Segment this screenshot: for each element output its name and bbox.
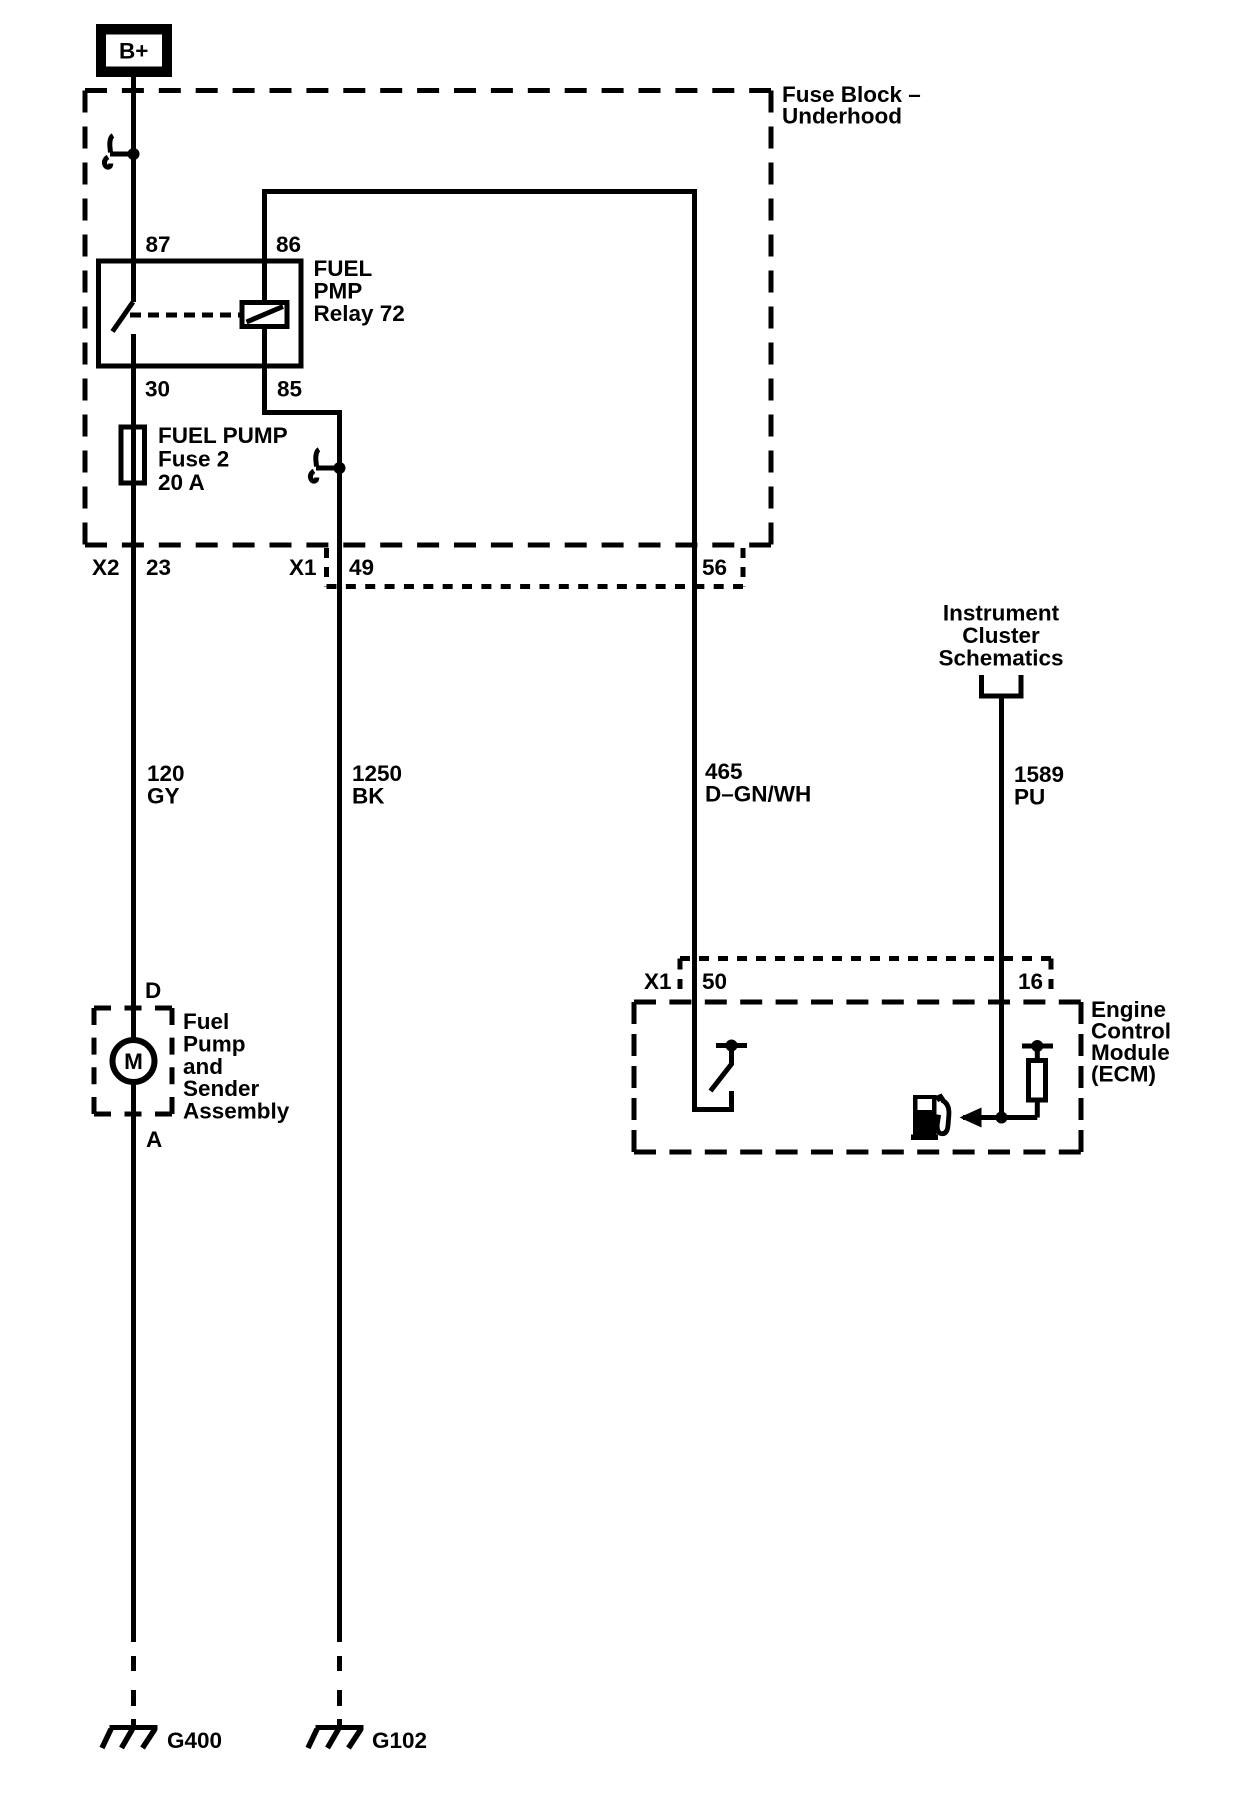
relay 72 outline: [99, 261, 302, 366]
svg-text:Underhood: Underhood: [782, 104, 902, 129]
node: Instrument Cluster Schematics: [938, 601, 1063, 671]
battery feed B+ box: [96, 24, 172, 77]
fuel pump icon (gas pump glyph): [911, 1094, 949, 1141]
label: Fuse Block - Underhood: [782, 82, 921, 129]
svg-text:and: and: [183, 1054, 223, 1079]
wire label 465 D-GN/WH: [705, 759, 811, 807]
fuel pump and sender assembly dashed border: [94, 1006, 172, 1011]
svg-text:PU: PU: [1014, 785, 1045, 810]
fuse 2 outline: [121, 427, 145, 483]
motor M circle (fuel pump): [113, 1040, 155, 1082]
svg-text:D: D: [145, 978, 161, 1003]
fuse F: FUEL PUMP Fuse 2 20 A label: [158, 423, 288, 495]
wire relay pin 85 jog to pin 49: [265, 364, 340, 413]
wire relay pin 86 vertical through coil: [262, 189, 267, 366]
svg-text:X2: X2: [92, 555, 120, 580]
svg-text:Pump: Pump: [183, 1031, 246, 1056]
ECM driver switch bar: [716, 1043, 747, 1048]
relay coil box: [242, 303, 287, 327]
connector X1 dotted outline (fuse block, pins 49/56): [324, 548, 329, 587]
svg-text:Cluster: Cluster: [962, 623, 1040, 648]
ECM U1: Engine Control Module label: [1091, 997, 1171, 1087]
svg-text:GY: GY: [147, 784, 180, 809]
svg-text:120: 120: [147, 761, 185, 786]
svg-text:PMP: PMP: [314, 279, 363, 304]
svg-text:1589: 1589: [1014, 762, 1064, 787]
junction node on gauge wire: [996, 1112, 1008, 1124]
wire label 120 GY: [147, 761, 185, 809]
fuse block underhood dashed border: [85, 88, 771, 93]
wire G102 dashed lead: [337, 1656, 342, 1671]
clip symbol on B+ feed: [110, 152, 134, 157]
svg-text:23: 23: [146, 555, 171, 580]
svg-text:Schematics: Schematics: [938, 646, 1063, 671]
svg-text:56: 56: [702, 555, 727, 580]
svg-text:B+: B+: [119, 39, 148, 64]
wire fuel gauge signal horizontal inside ECM: [963, 1115, 1037, 1120]
ECM pull-up resistor bar: [1022, 1044, 1053, 1049]
connector X1 dotted outline (ECM, pins 50/16): [678, 959, 683, 990]
ECM driver switch arm: [711, 1048, 732, 1091]
svg-text:(ECM): (ECM): [1091, 1062, 1156, 1087]
relay coil dashed link: [130, 313, 242, 318]
ground symbol G400: [110, 1725, 158, 1730]
svg-text:49: 49: [349, 555, 374, 580]
wire label 1589 PU: [1014, 762, 1064, 810]
svg-text:30: 30: [145, 377, 170, 402]
wire 1589 PU from instrument cluster down to junction: [999, 696, 1004, 1118]
wire label 1250 BK: [352, 761, 402, 809]
svg-text:FUEL: FUEL: [314, 256, 373, 281]
svg-text:BK: BK: [352, 784, 385, 809]
engine control module dashed border: [634, 1000, 1081, 1005]
svg-text:86: 86: [276, 232, 301, 257]
svg-text:Sender: Sender: [183, 1076, 260, 1101]
svg-text:FUEL PUMP: FUEL PUMP: [158, 423, 288, 448]
fuel pump and sender assembly label: [183, 1009, 290, 1124]
svg-text:1250: 1250: [352, 761, 402, 786]
arrowhead pointing at fuel gauge icon: [960, 1108, 982, 1128]
wire G400 dashed lead: [131, 1656, 136, 1671]
svg-text:G400: G400: [167, 1728, 222, 1753]
wire relay pin 86 horizontal top run: [265, 189, 698, 194]
svg-text:X1: X1: [644, 969, 672, 994]
svg-text:85: 85: [277, 377, 302, 402]
ECM pull-up resistor: [1035, 1046, 1040, 1060]
svg-text:Fuel: Fuel: [183, 1009, 229, 1034]
svg-text:Instrument: Instrument: [943, 601, 1060, 626]
svg-text:D–GN/WH: D–GN/WH: [705, 782, 811, 807]
svg-text:M: M: [124, 1049, 143, 1074]
svg-text:X1: X1: [289, 555, 317, 580]
svg-text:Fuse 2: Fuse 2: [158, 447, 229, 472]
wire B+ feed down from B+ box to relay pin 87: [131, 77, 136, 302]
svg-text:Assembly: Assembly: [183, 1099, 290, 1124]
relay switch arm: [113, 302, 134, 332]
instrument cluster connector bracket: [982, 675, 1022, 696]
svg-text:A: A: [146, 1127, 162, 1152]
wire relay pin 30 down through fuse, pin 23/X2, to fuel pump and on to G400: [131, 334, 136, 1642]
wire 465 D-GN/WH pin 56 down to ECM pin 50 and to switch: [695, 189, 732, 1110]
relay K: FUEL PMP Relay 72 label: [314, 256, 405, 326]
ground symbol G102: [316, 1725, 364, 1730]
clip symbol on pin 85 wire: [316, 466, 340, 471]
svg-text:50: 50: [702, 969, 727, 994]
svg-text:20 A: 20 A: [158, 470, 205, 495]
svg-text:465: 465: [705, 759, 743, 784]
svg-text:G102: G102: [372, 1728, 427, 1753]
svg-text:Relay 72: Relay 72: [314, 301, 405, 326]
svg-text:16: 16: [1018, 969, 1043, 994]
svg-text:87: 87: [146, 232, 171, 257]
wire 1250 BK pin 49 down to G102: [337, 410, 342, 1642]
